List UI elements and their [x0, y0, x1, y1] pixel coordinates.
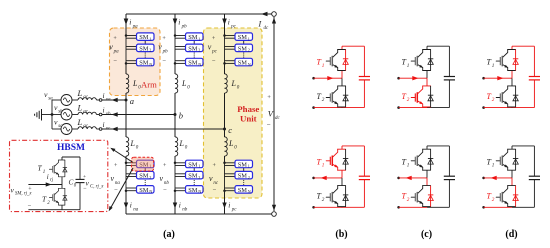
top wire [512, 145, 534, 147]
svg-text:pc: pc [211, 50, 218, 55]
wire midpoint to T1 [511, 170, 513, 178]
ac line to node [102, 99, 126, 101]
svg-text:v: v [109, 43, 113, 52]
svg-text:−: − [162, 58, 166, 65]
svg-text:vc: vc [106, 127, 111, 132]
transistor T2 [326, 186, 348, 207]
wire lower stack to rail [224, 191, 226, 214]
wire coil to node c [224, 93, 226, 129]
wire midpoint to T2 [61, 185, 63, 189]
wire coil to lower stack [125, 156, 127, 163]
SM1 highlight box (lower arm a) [131, 157, 153, 171]
svg-text:i: i [129, 18, 131, 27]
wire T1 to top rail [341, 146, 343, 149]
svg-text:2: 2 [492, 197, 495, 203]
svg-text:pc: pc [231, 208, 238, 213]
HBSM current arrow i_rj [46, 182, 52, 186]
svg-text:1: 1 [407, 163, 410, 169]
current arrow i_va [112, 98, 118, 102]
upper arm SM stack phase b [174, 33, 203, 67]
bottom wire right [427, 206, 449, 208]
capacitor [359, 175, 370, 177]
svg-text:L: L [231, 79, 237, 88]
svg-text:i: i [103, 120, 105, 129]
ac line to node [102, 128, 225, 130]
svg-text:−: − [28, 203, 32, 210]
submodule state panel (b) top [312, 46, 370, 109]
top wire [427, 145, 449, 147]
svg-text:1: 1 [407, 63, 410, 69]
wire coil to lower stack [224, 156, 226, 163]
terminal lower [312, 206, 315, 209]
svg-text:ac: ac [83, 110, 89, 115]
svg-text:i: i [103, 91, 105, 100]
Vdc measurement line [273, 17, 275, 211]
terminal upper [312, 77, 315, 80]
top wire [427, 45, 449, 47]
wire midpoint to T1 [426, 170, 428, 178]
wire stack to coil [174, 63, 176, 74]
svg-text:−: − [213, 187, 217, 194]
svg-text:1: 1 [43, 170, 46, 175]
top wire [512, 45, 534, 47]
svg-text:i: i [228, 18, 230, 27]
HBSM transistor T2 [49, 188, 67, 205]
svg-text:L: L [77, 102, 83, 112]
bottom wire left (red) [399, 206, 427, 208]
svg-text:L: L [77, 117, 83, 127]
current arrow i_vb [112, 112, 118, 116]
arm current arrow i_na [124, 203, 128, 209]
svg-text:i: i [47, 173, 49, 181]
transistor T1 [496, 50, 518, 71]
svg-text:(a): (a) [163, 229, 175, 240]
svg-text:Arm: Arm [141, 79, 157, 89]
transistor T1 [496, 149, 518, 170]
top wire [342, 145, 364, 147]
bottom wire left (red) [484, 206, 512, 208]
HBSM input wire [28, 184, 62, 186]
Idc current arrow [261, 12, 268, 17]
svg-text:sb: sb [58, 109, 63, 114]
wire lower stack to rail [125, 191, 127, 214]
current arrow [406, 176, 412, 180]
svg-text:−: − [113, 58, 117, 65]
cap branch [533, 146, 535, 176]
wire source to inductor [72, 99, 78, 101]
dc terminal bottom [272, 212, 277, 217]
dc bus bottom rail [126, 213, 274, 215]
arm current arrow i_nc [222, 203, 226, 209]
svg-text:ac: ac [83, 95, 89, 100]
svg-text:i: i [130, 201, 132, 210]
svg-text:L: L [179, 139, 185, 148]
svg-text:2: 2 [322, 97, 325, 103]
wire bus to source sb [52, 114, 61, 116]
svg-text:ac: ac [83, 124, 89, 129]
svg-text:nb: nb [182, 208, 188, 213]
terminal lower [397, 106, 400, 109]
svg-text:(c): (c) [421, 229, 432, 240]
wire midpoint to T1 [341, 170, 343, 178]
svg-text:1: 1 [492, 63, 495, 69]
input wire [399, 177, 427, 179]
lower arm SM stack phase a [125, 160, 154, 194]
node c [223, 128, 226, 131]
transistor T1 [411, 50, 433, 71]
svg-text:(d): (d) [505, 229, 517, 240]
ac bus junction [51, 113, 54, 116]
wire bus to source sa [52, 99, 61, 101]
wire T1 to top rail [511, 46, 513, 49]
lower arm SM stack phase c [223, 160, 252, 194]
submodule state panel (c) bot [397, 146, 455, 209]
HBSM transistor T1 [49, 160, 67, 177]
wire node to lower coil [125, 100, 127, 137]
phase unit highlight box [204, 28, 263, 198]
terminal lower [482, 206, 485, 209]
svg-text:vb: vb [106, 112, 111, 117]
svg-text:SM, rj_x: SM, rj_x [15, 192, 32, 197]
terminal lower [312, 106, 315, 109]
svg-text:pa: pa [113, 50, 120, 55]
wire T1 to top rail [341, 46, 343, 49]
current arrow [321, 176, 327, 180]
svg-text:+: + [267, 94, 271, 101]
svg-text:C, rj_x: C, rj_x [90, 185, 104, 190]
HBSM bridge top wire [62, 156, 80, 158]
terminal upper [397, 77, 400, 80]
HBSM capacitor C0 branch [79, 157, 81, 179]
wire midpoint to T2 (red) [511, 178, 513, 186]
input wire [484, 177, 512, 179]
ac line to node [102, 114, 175, 116]
input wire [314, 177, 342, 179]
current arrow [497, 76, 503, 80]
terminal circle [96, 114, 99, 116]
grid inductor L_ac sc [78, 127, 96, 129]
wire midpoint to T2 (red) [426, 78, 428, 86]
svg-text:L: L [77, 88, 83, 98]
arm current arrow i_nb [173, 203, 177, 209]
arm inductor L0 upper c [225, 74, 228, 93]
svg-text:I: I [258, 20, 262, 29]
input wire [484, 77, 512, 79]
terminal upper [482, 177, 485, 180]
node a [125, 99, 128, 102]
svg-text:L: L [181, 79, 187, 88]
svg-text:a: a [130, 96, 134, 106]
current arrow i_vc [112, 127, 118, 131]
capacitor [359, 76, 370, 78]
wire midpoint to T1 [341, 71, 343, 79]
svg-text:i: i [179, 201, 181, 210]
input wire [314, 77, 342, 79]
svg-text:L: L [132, 79, 138, 88]
terminal lower [482, 106, 485, 109]
callout arrow to HBSM bottom [110, 168, 134, 210]
HBSM bottom wire [61, 205, 63, 210]
lower arm SM stack phase b [174, 160, 203, 194]
cap branch [448, 146, 450, 176]
svg-text:v: v [158, 43, 162, 52]
terminal circle [96, 99, 99, 101]
bottom wire right [512, 206, 534, 208]
ground symbol [35, 109, 42, 121]
bottom wire left (red) [399, 107, 427, 109]
bottom wire [484, 107, 535, 109]
upper arm SM stack phase a [125, 33, 154, 67]
svg-text:1: 1 [322, 163, 325, 169]
wire midpoint to T2 [341, 178, 343, 186]
wire midpoint to T1 [511, 71, 513, 79]
callout arrow to HBSM top [112, 149, 133, 163]
svg-text:dc: dc [275, 116, 281, 121]
top wire [342, 45, 364, 47]
wire coil to node a [125, 93, 127, 100]
svg-text:c: c [228, 125, 232, 135]
submodule state panel (b) bot [312, 146, 370, 209]
terminal circle [96, 128, 99, 130]
capacitor [444, 76, 455, 78]
current arrow [491, 176, 497, 180]
arm inductor L0 upper a [126, 74, 129, 93]
wire node to lower coil [174, 115, 176, 138]
transistor T1 [411, 149, 433, 170]
wire stack to coil [224, 63, 226, 74]
svg-text:sa: sa [48, 97, 53, 102]
terminal lower [397, 206, 400, 209]
svg-text:nb: nb [164, 181, 170, 186]
svg-text:na: na [133, 208, 139, 213]
submodule state panel (d) top [482, 46, 540, 109]
svg-text:L: L [130, 139, 136, 148]
phase leg b upper wire [174, 14, 176, 36]
svg-text:i: i [178, 18, 180, 27]
ground wire [42, 114, 53, 116]
wire T1 to midpoint [61, 177, 63, 185]
ac source v_sc [61, 124, 72, 135]
svg-text:HBSM: HBSM [57, 143, 85, 153]
svg-text:pc: pc [230, 25, 237, 30]
svg-text:(b): (b) [335, 229, 347, 240]
wire bus to source sc [52, 128, 61, 130]
cap branch [363, 46, 365, 76]
svg-text:nc: nc [213, 181, 219, 186]
svg-text:v: v [111, 174, 115, 183]
dc bus top rail [126, 13, 274, 15]
transistor T1 [326, 149, 348, 170]
svg-text:v: v [208, 43, 212, 52]
svg-text:2: 2 [407, 197, 410, 203]
transistor T2 [326, 86, 348, 107]
svg-text:b: b [179, 110, 183, 120]
svg-text:2: 2 [492, 97, 495, 103]
wire coil to lower stack [174, 156, 176, 163]
dc terminal top [272, 12, 277, 17]
transistor T1 [326, 50, 348, 71]
svg-text:v: v [160, 174, 164, 183]
svg-text:v: v [209, 174, 213, 183]
terminal upper [482, 77, 485, 80]
arm current arrow i_pb [173, 19, 178, 26]
cap branch [533, 46, 535, 76]
phase leg c upper wire [224, 14, 226, 36]
svg-text:L: L [228, 139, 234, 148]
arm current arrow i_pa [124, 19, 129, 26]
cap branch [448, 46, 450, 76]
svg-text:−: − [114, 187, 118, 194]
svg-text:Unit: Unit [240, 114, 257, 124]
arm highlight box [110, 28, 161, 96]
arm inductor L0 upper b [175, 74, 178, 93]
wire stack to coil [125, 63, 127, 74]
arm inductor L0 lower a [126, 137, 129, 156]
svg-text:2: 2 [407, 97, 410, 103]
arm inductor L0 lower c [225, 137, 228, 156]
svg-text:va: va [106, 98, 111, 103]
svg-text:pb: pb [162, 50, 169, 55]
upper arm SM stack phase c [223, 33, 252, 67]
svg-text:1: 1 [322, 63, 325, 69]
svg-text:1: 1 [492, 163, 495, 169]
wire source to inductor [72, 114, 78, 116]
node b [174, 113, 177, 116]
transistor T2 [411, 186, 433, 207]
arm current arrow i_pc [222, 19, 227, 26]
capacitor [529, 175, 540, 177]
capacitor [529, 76, 540, 78]
wire lower stack to rail [174, 191, 176, 214]
wire midpoint to T2 [341, 78, 343, 86]
transistor T2 [496, 186, 518, 207]
svg-text:pb: pb [181, 25, 188, 30]
cap branch [363, 146, 365, 176]
transistor T2 [496, 86, 518, 107]
wire midpoint to T2 (red) [426, 178, 428, 186]
current arrow [327, 76, 333, 80]
wire source to inductor [72, 128, 78, 130]
bottom wire [314, 107, 365, 109]
svg-text:Phase: Phase [237, 104, 259, 114]
submodule state panel (c) top [397, 46, 455, 109]
submodule state panel (d) bot [482, 146, 540, 209]
terminal upper [397, 177, 400, 180]
svg-text:i: i [103, 105, 105, 114]
bottom wire [314, 206, 365, 208]
wire midpoint to T2 [511, 78, 513, 86]
capacitor [444, 175, 455, 177]
svg-text:pa: pa [132, 25, 139, 30]
arm inductor L0 lower b [175, 137, 178, 156]
svg-text:na: na [115, 181, 121, 186]
wire node to lower coil [224, 129, 226, 137]
input wire [399, 77, 427, 79]
svg-text:−: − [212, 58, 216, 65]
svg-text:dc: dc [264, 26, 270, 31]
grid inductor L_ac sa [78, 98, 96, 100]
ac bus vertical [51, 100, 53, 129]
svg-text:2: 2 [322, 197, 325, 203]
phase leg a upper wire [125, 14, 127, 36]
ac source v_sb [61, 109, 72, 120]
svg-text:i: i [228, 201, 230, 210]
svg-text:−: − [163, 187, 167, 194]
svg-text:C: C [69, 179, 74, 187]
wire midpoint to T1 [426, 71, 428, 79]
transistor T2 [411, 86, 433, 107]
current arrow [412, 76, 418, 80]
bottom wire right [427, 107, 449, 109]
grid inductor L_ac sb [78, 112, 96, 114]
ac source v_sa [61, 95, 72, 106]
HBSM detail box [10, 140, 108, 211]
svg-text:−: − [267, 121, 271, 129]
wire coil to node b [174, 93, 176, 115]
terminal upper [312, 177, 315, 180]
